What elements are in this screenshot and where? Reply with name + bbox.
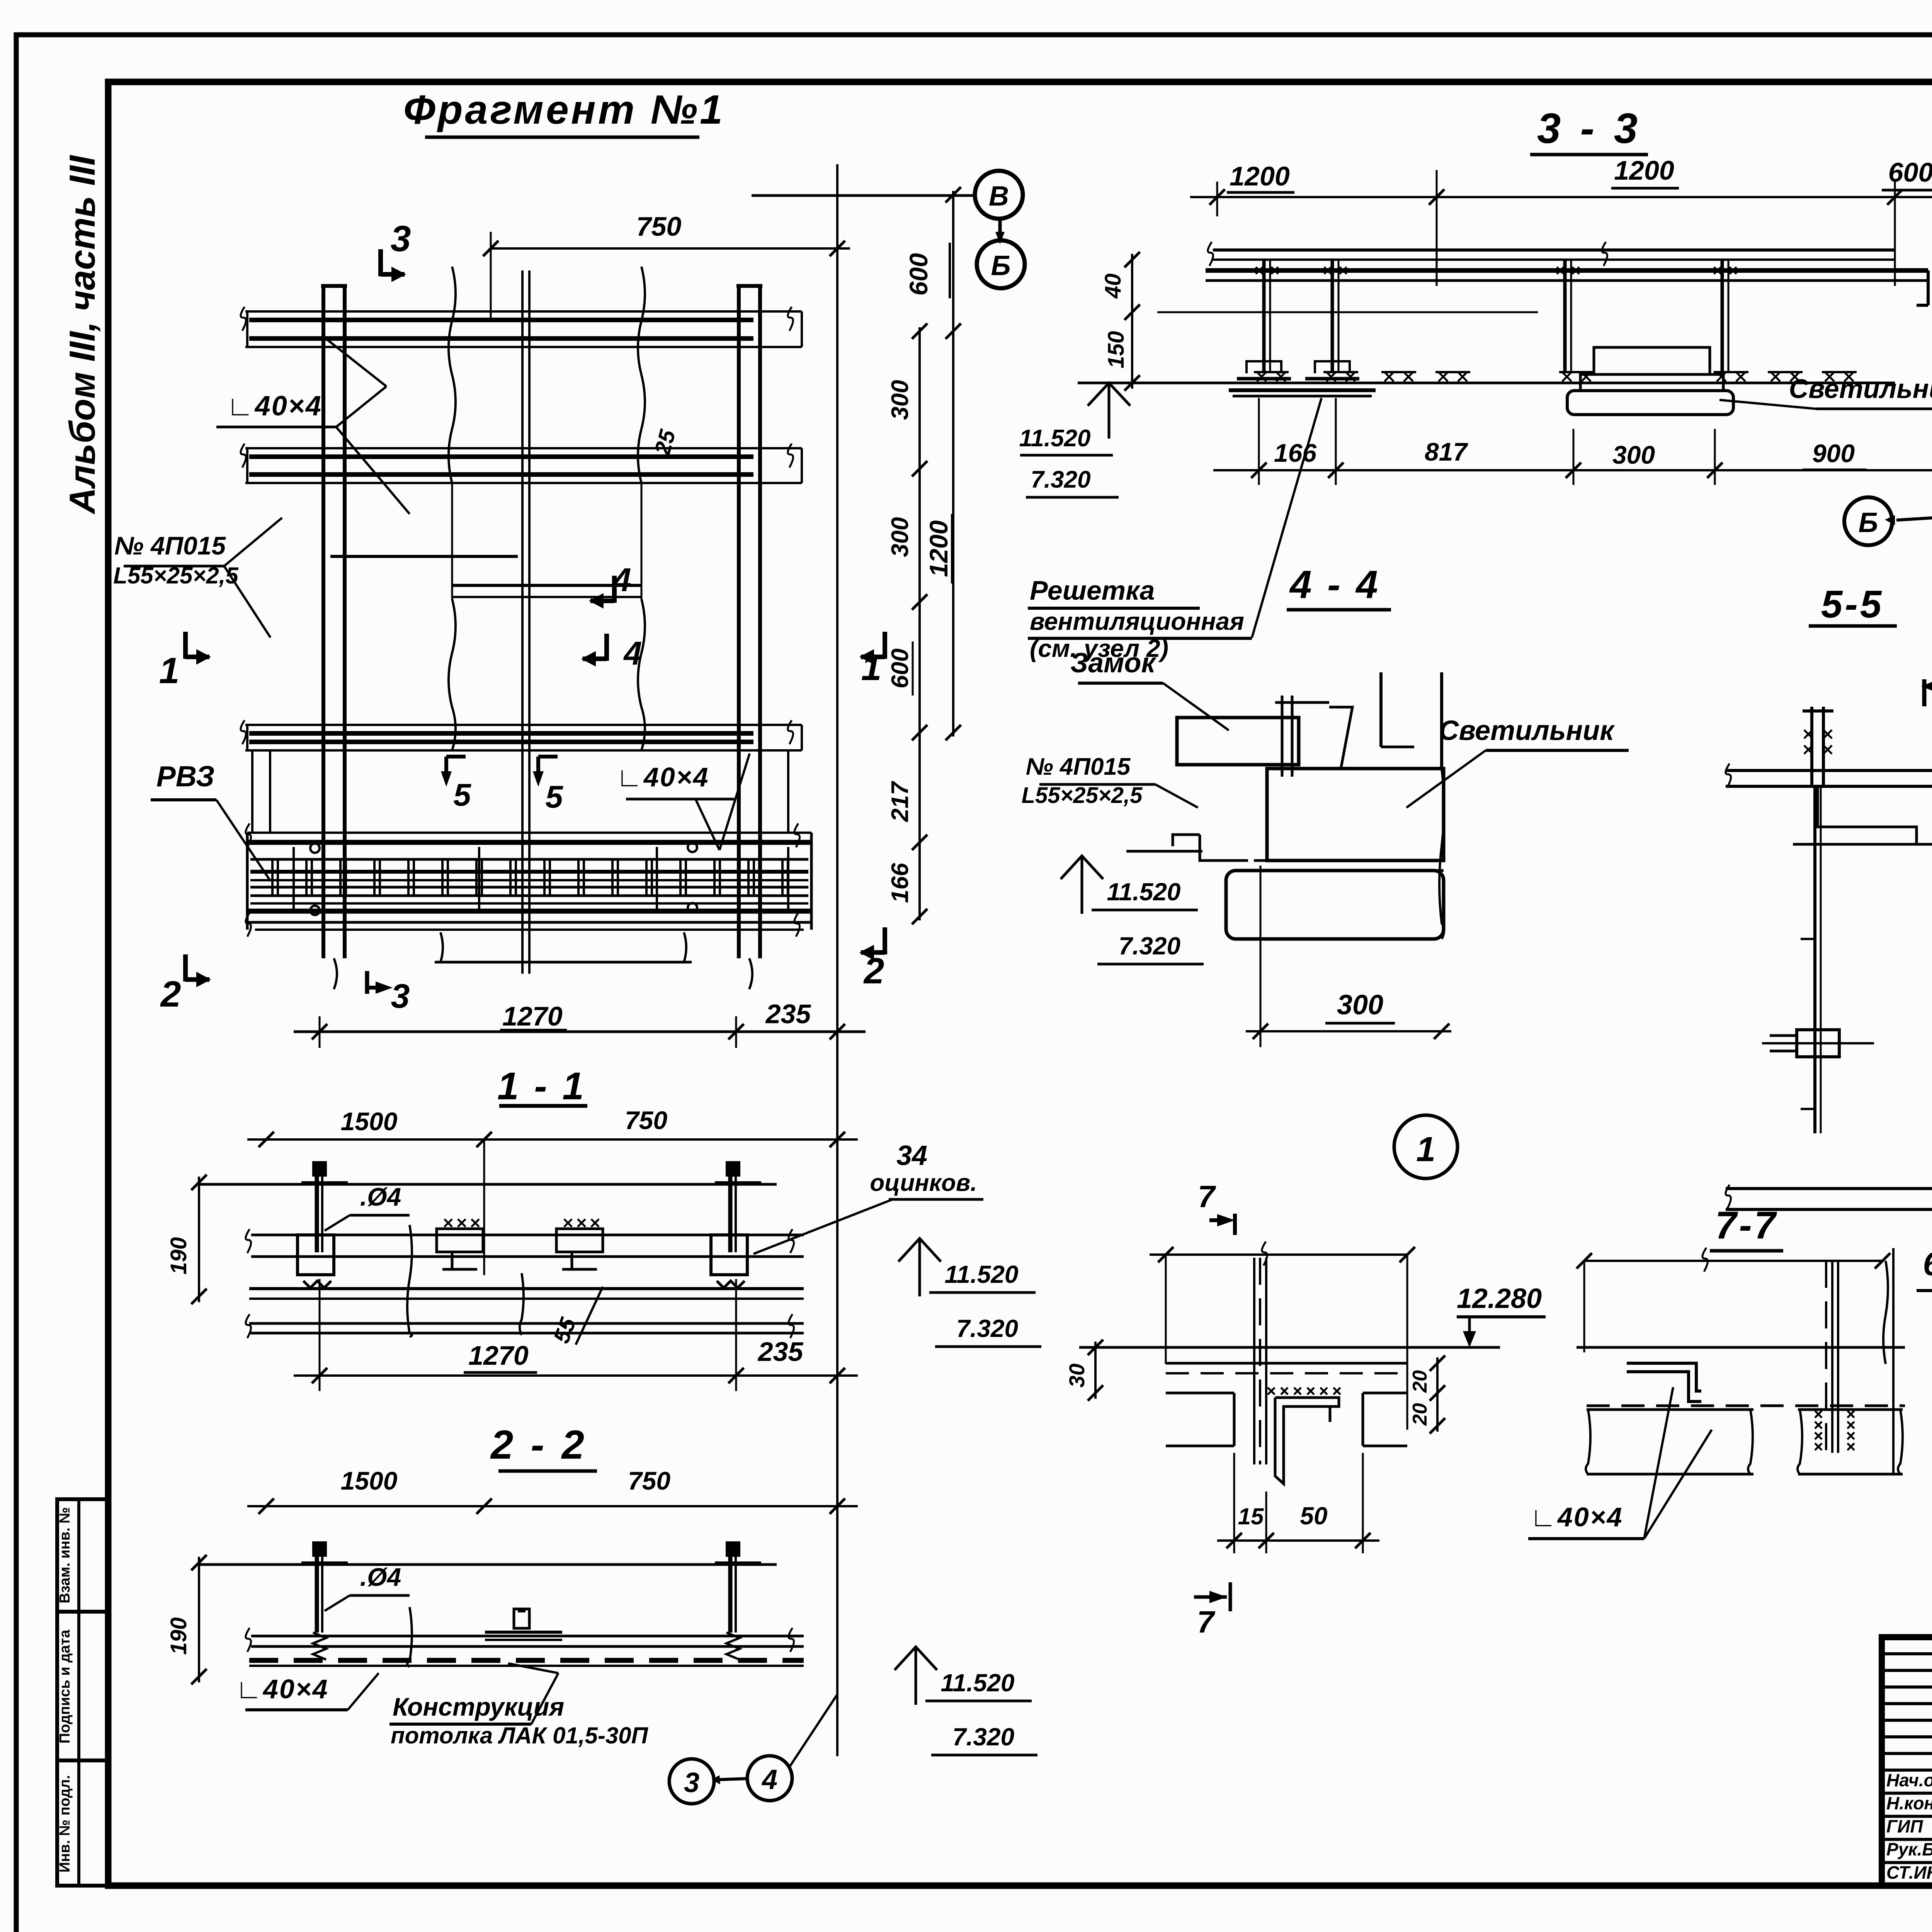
svg-text:6: 6 xyxy=(1923,1246,1932,1282)
svg-text:Светильник: Светильник xyxy=(1439,715,1615,746)
svg-text:11.520: 11.520 xyxy=(941,1669,1015,1697)
svg-text:300: 300 xyxy=(1337,990,1383,1020)
svg-text:3 - 3: 3 - 3 xyxy=(1537,105,1641,152)
svg-text:Фрагмент №1: Фрагмент №1 xyxy=(403,87,725,133)
svg-text:Замок: Замок xyxy=(1070,648,1157,679)
svg-text:166: 166 xyxy=(887,863,913,903)
svg-text:750: 750 xyxy=(625,1106,667,1134)
svg-text:3: 3 xyxy=(684,1767,699,1798)
svg-text:∟40×4: ∟40×4 xyxy=(1530,1502,1623,1532)
svg-text:СТ.ИНЖ.: СТ.ИНЖ. xyxy=(1886,1862,1932,1883)
svg-text:∟40×4: ∟40×4 xyxy=(235,1674,328,1704)
svg-text:11.520: 11.520 xyxy=(1019,425,1090,452)
svg-text:Подпись и дата: Подпись и дата xyxy=(57,1629,73,1743)
svg-text:1500: 1500 xyxy=(341,1466,398,1495)
svg-text:ГИП: ГИП xyxy=(1886,1816,1923,1836)
svg-text:В: В xyxy=(989,181,1009,212)
svg-text:L55×25×2,5: L55×25×2,5 xyxy=(113,563,239,588)
svg-text:.Ø4: .Ø4 xyxy=(360,1182,401,1211)
svg-text:РВЗ: РВЗ xyxy=(156,760,215,793)
svg-text:235: 235 xyxy=(765,999,811,1029)
svg-text:1200: 1200 xyxy=(924,520,953,577)
svg-text:217: 217 xyxy=(887,781,913,822)
svg-text:2: 2 xyxy=(863,951,884,992)
svg-text:.Ø4: .Ø4 xyxy=(360,1563,401,1591)
svg-text:вентиляционная: вентиляционная xyxy=(1030,607,1244,635)
svg-text:817: 817 xyxy=(1425,437,1468,466)
svg-text:300: 300 xyxy=(1612,440,1655,469)
svg-text:Светильник: Светильник xyxy=(1789,374,1932,404)
svg-text:№ 4П015: № 4П015 xyxy=(1026,753,1131,780)
svg-text:11.520: 11.520 xyxy=(945,1260,1019,1288)
svg-text:235: 235 xyxy=(757,1337,804,1367)
svg-text:20: 20 xyxy=(1409,1403,1431,1426)
svg-text:15: 15 xyxy=(1238,1503,1264,1529)
svg-text:1270: 1270 xyxy=(468,1340,529,1371)
svg-text:Б: Б xyxy=(991,250,1011,281)
svg-text:34: 34 xyxy=(896,1140,927,1171)
svg-text:Нач.отд.: Нач.отд. xyxy=(1886,1770,1932,1790)
svg-text:оцинков.: оцинков. xyxy=(870,1170,977,1196)
svg-text:∟40×4: ∟40×4 xyxy=(616,762,709,792)
svg-text:300: 300 xyxy=(887,380,913,420)
svg-text:5: 5 xyxy=(453,777,471,813)
svg-text:4: 4 xyxy=(761,1764,777,1795)
svg-text:1200: 1200 xyxy=(1614,155,1674,185)
svg-text:50: 50 xyxy=(1300,1502,1327,1530)
svg-text:1270: 1270 xyxy=(502,1001,563,1031)
svg-text:600: 600 xyxy=(904,253,933,296)
svg-text:∟40×4: ∟40×4 xyxy=(226,391,322,422)
svg-text:7.320: 7.320 xyxy=(1031,466,1090,493)
svg-text:Н.контр.: Н.контр. xyxy=(1886,1793,1932,1813)
svg-text:1: 1 xyxy=(1416,1130,1435,1169)
svg-text:5: 5 xyxy=(545,779,563,815)
svg-text:1: 1 xyxy=(159,650,180,691)
svg-text:1 - 1: 1 - 1 xyxy=(497,1065,586,1108)
svg-text:7.320: 7.320 xyxy=(956,1315,1018,1342)
svg-text:1: 1 xyxy=(861,647,882,688)
svg-text:40: 40 xyxy=(1100,274,1126,299)
svg-text:2: 2 xyxy=(160,974,181,1015)
svg-text:190: 190 xyxy=(166,1617,191,1655)
svg-text:L55×25×2,5: L55×25×2,5 xyxy=(1022,783,1143,808)
svg-text:3: 3 xyxy=(391,218,411,259)
svg-text:Инв. № подл.: Инв. № подл. xyxy=(57,1775,73,1872)
svg-text:7.320: 7.320 xyxy=(952,1723,1014,1751)
svg-text:750: 750 xyxy=(636,211,682,241)
svg-text:4: 4 xyxy=(612,562,631,599)
svg-text:7-7: 7-7 xyxy=(1715,1204,1778,1247)
svg-text:3: 3 xyxy=(391,977,410,1015)
svg-text:750: 750 xyxy=(628,1466,670,1495)
svg-text:7: 7 xyxy=(1198,1179,1216,1214)
svg-text:Конструкция: Конструкция xyxy=(393,1692,564,1721)
svg-text:166: 166 xyxy=(1274,439,1317,467)
svg-text:20: 20 xyxy=(1409,1370,1431,1393)
svg-text:Б: Б xyxy=(1859,507,1878,538)
svg-text:5-5: 5-5 xyxy=(1821,583,1884,626)
svg-text:Альбом III, часть III: Альбом III, часть III xyxy=(62,155,102,515)
svg-text:600: 600 xyxy=(887,648,913,688)
svg-text:Решетка: Решетка xyxy=(1030,575,1155,605)
svg-text:1200: 1200 xyxy=(1230,161,1290,191)
svg-text:12.280: 12.280 xyxy=(1457,1283,1542,1314)
svg-text:7: 7 xyxy=(1197,1605,1216,1639)
svg-text:150: 150 xyxy=(1104,331,1129,369)
svg-text:Взам. инв. №: Взам. инв. № xyxy=(57,1507,73,1603)
svg-text:Рук.БР.: Рук.БР. xyxy=(1886,1839,1932,1859)
svg-text:потолка ЛАК 01,5-30П: потолка ЛАК 01,5-30П xyxy=(391,1723,649,1748)
svg-text:№ 4П015: № 4П015 xyxy=(114,531,226,560)
svg-text:300: 300 xyxy=(887,517,913,557)
svg-text:190: 190 xyxy=(166,1237,191,1275)
svg-text:900: 900 xyxy=(1812,439,1855,468)
svg-text:1500: 1500 xyxy=(341,1107,398,1136)
svg-text:11.520: 11.520 xyxy=(1107,878,1181,906)
svg-text:7.320: 7.320 xyxy=(1119,932,1180,960)
svg-text:2 - 2: 2 - 2 xyxy=(490,1422,587,1468)
svg-text:30: 30 xyxy=(1065,1364,1089,1388)
svg-text:4 - 4: 4 - 4 xyxy=(1289,563,1380,607)
